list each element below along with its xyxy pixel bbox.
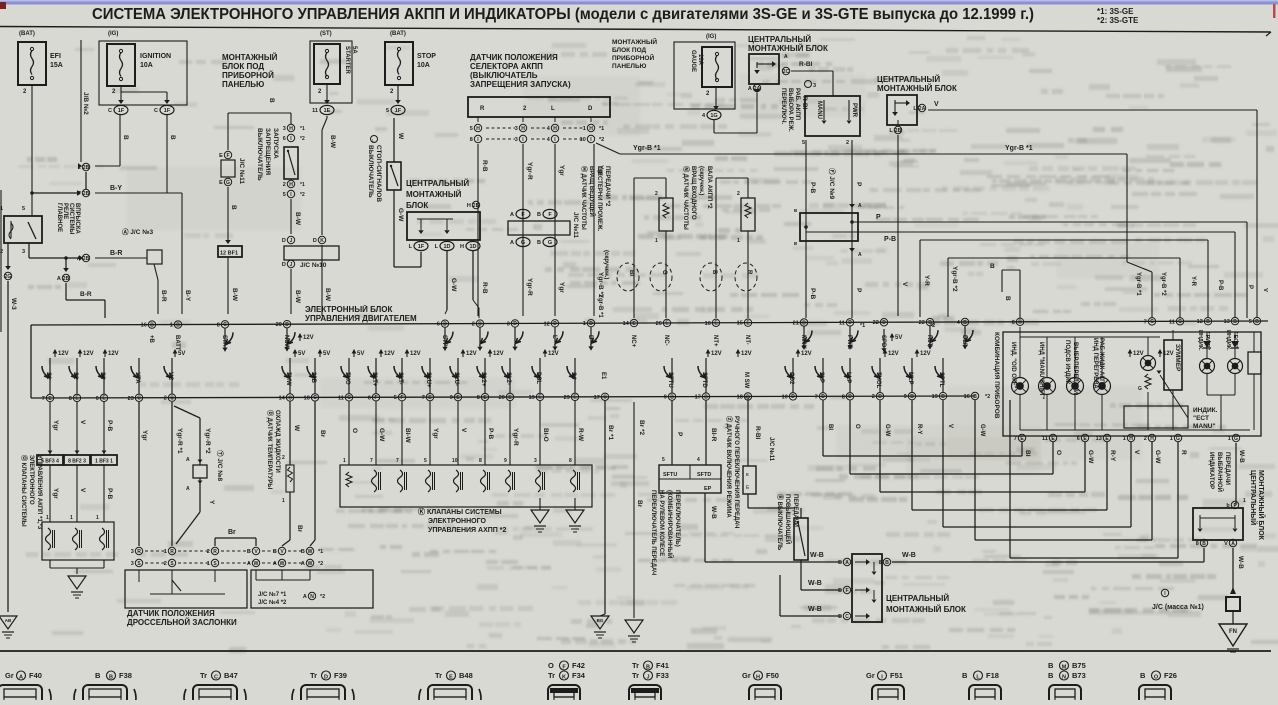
svg-text:B: B	[537, 240, 541, 246]
svg-text:C: C	[214, 675, 218, 681]
svg-text:3: 3	[22, 249, 25, 255]
svg-text:H: H	[289, 182, 293, 188]
svg-text:C: C	[1178, 319, 1182, 325]
svg-text:S1: S1	[45, 372, 51, 380]
svg-text:G-W: G-W	[397, 208, 404, 222]
svg-text:9: 9	[504, 458, 507, 464]
svg-text:B75: B75	[1072, 661, 1086, 670]
svg-text:R: R	[746, 270, 752, 275]
svg-text:МОНТАЖНЫЙ БЛОК: МОНТАЖНЫЙ БЛОК	[886, 605, 966, 614]
svg-text:N: N	[310, 594, 314, 600]
svg-text:Ⓞ КЛАПАНЫ СИСТЕМЫ: Ⓞ КЛАПАНЫ СИСТЕМЫ	[20, 455, 28, 527]
svg-text:VC: VC	[167, 372, 173, 381]
svg-text:C: C	[313, 395, 317, 401]
svg-text:12V: 12V	[711, 351, 722, 357]
svg-text:14: 14	[279, 395, 286, 401]
svg-text:11: 11	[338, 395, 344, 401]
svg-text:P-B: P-B	[884, 236, 896, 243]
svg-text:G-W: G-W	[450, 278, 457, 292]
svg-text:V: V	[1262, 288, 1268, 292]
svg-text:D: D	[513, 321, 517, 327]
svg-text:1: 1	[1123, 436, 1126, 442]
svg-text:1D: 1D	[469, 244, 476, 250]
svg-text:F: F	[374, 395, 377, 401]
svg-text:ЗУММЕР: ЗУММЕР	[1174, 344, 1181, 372]
svg-text:Gr: Gr	[5, 671, 14, 680]
svg-text:ЦЕНТРАЛЬНЫЙ: ЦЕНТРАЛЬНЫЙ	[748, 35, 811, 44]
svg-text:*2: *2	[320, 594, 325, 600]
svg-text:Br: Br	[636, 500, 643, 508]
svg-text:F33: F33	[656, 671, 669, 680]
svg-text:D: D	[882, 320, 886, 326]
svg-text:16: 16	[141, 323, 147, 329]
svg-text:ИНД "MANU SHIFT": ИНД "MANU SHIFT"	[1038, 342, 1044, 399]
svg-text:9: 9	[450, 395, 453, 401]
svg-text:ЗАПРЕЩЕНИЯ ЗАПУСКА): ЗАПРЕЩЕНИЯ ЗАПУСКА)	[470, 80, 571, 89]
svg-text:2: 2	[164, 396, 167, 402]
svg-text:11: 11	[312, 108, 318, 114]
svg-text:5: 5	[386, 108, 389, 114]
svg-text:C: C	[603, 395, 607, 401]
svg-text:BI-R: BI-R	[710, 428, 717, 442]
svg-text:13: 13	[1224, 319, 1230, 325]
svg-text:8: 8	[569, 458, 572, 464]
svg-text:V: V	[947, 424, 953, 428]
svg-text:Y-R: Y-R	[1190, 276, 1196, 287]
svg-text:R: R	[480, 106, 485, 112]
svg-text:SFTD: SFTD	[697, 472, 711, 478]
svg-text:15A: 15A	[50, 62, 63, 69]
svg-text:H: H	[756, 675, 760, 681]
svg-text:8 BF2 3: 8 BF2 3	[68, 459, 86, 465]
svg-text:B: B	[273, 549, 277, 555]
svg-text:BG: BG	[597, 618, 604, 623]
svg-text:C: C	[154, 108, 158, 114]
svg-text:1F: 1F	[118, 108, 125, 114]
svg-text:F: F	[845, 588, 848, 594]
svg-text:Ygr-R: Ygr-R	[526, 278, 533, 296]
svg-text:12V: 12V	[493, 351, 504, 357]
svg-text:P-B: P-B	[1217, 280, 1223, 291]
svg-text:D: D	[478, 321, 482, 327]
svg-text:R: R	[213, 549, 217, 555]
svg-text:A: A	[845, 560, 849, 566]
svg-text:B: B	[247, 549, 251, 555]
svg-text:18: 18	[304, 395, 310, 401]
svg-text:P: P	[855, 182, 862, 187]
svg-text:F18: F18	[986, 671, 999, 680]
svg-text:12V: 12V	[108, 351, 119, 357]
svg-text:SLT+: SLT+	[371, 372, 377, 387]
svg-text:B48: B48	[459, 671, 473, 680]
svg-text:V: V	[901, 282, 908, 287]
svg-text:"PWR": "PWR"	[1204, 332, 1210, 350]
svg-text:1: 1	[655, 238, 658, 244]
svg-text:B-W: B-W	[231, 288, 238, 302]
svg-text:THO: THO	[344, 372, 350, 385]
svg-text:V: V	[460, 428, 467, 433]
svg-text:E: E	[838, 560, 842, 566]
svg-text:ЦЕНТРАЛЬНЫЙ: ЦЕНТРАЛЬНЫЙ	[886, 594, 949, 603]
svg-text:7: 7	[396, 458, 399, 464]
svg-text:1: 1	[1170, 436, 1173, 442]
svg-text:C: C	[170, 396, 174, 402]
svg-text:B-W: B-W	[329, 135, 336, 149]
svg-text:20: 20	[276, 322, 282, 328]
svg-text:5: 5	[470, 126, 473, 132]
svg-text:Gr: Gr	[742, 671, 751, 680]
svg-text:D: D	[848, 320, 852, 326]
svg-text:F: F	[400, 395, 403, 401]
svg-text:(ВЫКЛЮЧАТЕЛЬ: (ВЫКЛЮЧАТЕЛЬ	[470, 71, 538, 80]
svg-text:20: 20	[499, 395, 505, 401]
svg-text:12: 12	[1197, 319, 1203, 325]
svg-text:ПЕРЕДАЧИ: ПЕРЕДАЧИ	[1224, 452, 1230, 485]
svg-text:A: A	[273, 561, 277, 567]
svg-text:W: W	[308, 561, 313, 567]
svg-text:Ⓕ J/C №9: Ⓕ J/C №9	[828, 168, 837, 199]
svg-text:МОНТАЖНЫЙ БЛОК: МОНТАЖНЫЙ БЛОК	[877, 84, 957, 93]
svg-text:ПЕРЕКЛЮЧАТЕЛЬ ПЕРЕДАЧ: ПЕРЕКЛЮЧАТЕЛЬ ПЕРЕДАЧ	[650, 490, 656, 575]
svg-text:2: 2	[283, 182, 286, 188]
svg-text:H: H	[476, 126, 480, 132]
svg-text:L: L	[551, 335, 557, 339]
svg-text:5: 5	[424, 458, 427, 464]
svg-text:12V: 12V	[888, 351, 899, 357]
svg-text:J/C №4 *2: J/C №4 *2	[258, 599, 287, 606]
svg-text:NT-: NT-	[744, 335, 750, 345]
svg-text:ИНДИК.: ИНДИК.	[1193, 407, 1218, 414]
svg-text:Tr: Tr	[548, 671, 555, 680]
svg-text:W-B: W-B	[1238, 450, 1245, 463]
svg-text:5V: 5V	[357, 351, 364, 357]
svg-text:Ⓜ ДАТЧИК ЧАСТОТЫ: Ⓜ ДАТЧИК ЧАСТОТЫ	[580, 166, 588, 230]
svg-text:12V: 12V	[741, 351, 752, 357]
svg-text:ПРИБОРНОЙ: ПРИБОРНОЙ	[222, 71, 274, 80]
svg-text:B: B	[941, 394, 945, 400]
svg-text:Br *1: Br *1	[607, 425, 614, 441]
svg-text:A: A	[858, 252, 862, 258]
svg-text:*1: *1	[318, 549, 323, 555]
svg-text:SLU-: SLU-	[453, 372, 459, 386]
svg-text:Br: Br	[228, 529, 236, 536]
svg-text:A: A	[57, 276, 61, 282]
svg-text:3: 3	[283, 126, 286, 132]
svg-text:Ygr: Ygr	[52, 488, 59, 499]
svg-text:1: 1	[737, 238, 740, 244]
svg-text:12 BF1: 12 BF1	[220, 251, 238, 257]
svg-text:2: 2	[78, 165, 81, 171]
svg-text:Tr: Tr	[310, 671, 317, 680]
svg-text:P: P	[855, 288, 862, 293]
svg-text:10: 10	[452, 458, 458, 464]
svg-text:M SW: M SW	[743, 372, 749, 389]
svg-text:D: D	[443, 321, 447, 327]
svg-text:Ⓣ J/C №8: Ⓣ J/C №8	[216, 450, 225, 481]
svg-text:D: D	[848, 394, 852, 400]
svg-text:A: A	[186, 457, 190, 463]
svg-text:КОМБИНАЦИЯ ПРИБОРОВ: КОМБИНАЦИЯ ПРИБОРОВ	[993, 332, 1000, 419]
svg-text:J/C (масса №1): J/C (масса №1)	[1152, 603, 1204, 611]
svg-text:Ygr-R *1: Ygr-R *1	[176, 428, 183, 454]
svg-text:1F: 1F	[164, 108, 171, 114]
svg-text:B: B	[1048, 671, 1054, 680]
svg-text:P-B: P-B	[809, 288, 816, 300]
svg-text:D: D	[313, 238, 317, 244]
svg-text:3: 3	[515, 137, 518, 143]
svg-text:GAUGE: GAUGE	[690, 50, 696, 72]
svg-text:F38: F38	[119, 671, 132, 680]
svg-text:8: 8	[842, 394, 845, 400]
svg-text:L: L	[551, 106, 555, 112]
svg-text:7: 7	[815, 394, 818, 400]
svg-text:12V: 12V	[920, 351, 931, 357]
svg-text:B-R: B-R	[160, 290, 167, 302]
svg-text:A: A	[186, 486, 190, 492]
svg-text:Ⓝ ДАТЧИК ЧАСТОТЫ: Ⓝ ДАТЧИК ЧАСТОТЫ	[682, 166, 690, 230]
svg-text:РУЧНОГО ПЕРЕКЛЮЧЕНИЯ ПЕРЕДАЧ: РУЧНОГО ПЕРЕКЛЮЧЕНИЯ ПЕРЕДАЧ	[733, 416, 739, 528]
svg-text:THOL: THOL	[875, 372, 881, 389]
svg-text:P-B: P-B	[809, 182, 816, 194]
svg-text:D: D	[282, 262, 286, 268]
svg-text:Ⓑ ВЫКЛЮЧАТЕЛЬ: Ⓑ ВЫКЛЮЧАТЕЛЬ	[776, 494, 784, 551]
svg-text:B: B	[95, 671, 101, 680]
svg-text:8: 8	[69, 396, 72, 402]
svg-text:"ЕСТ: "ЕСТ	[1193, 415, 1209, 422]
svg-text:6: 6	[96, 396, 99, 402]
svg-text:H: H	[1150, 436, 1154, 442]
svg-text:O: O	[351, 428, 358, 433]
svg-text:Ygr-B *1: Ygr-B *1	[1005, 145, 1033, 152]
svg-text:ШЕСТЕРНИ ПРОМЕЖ.: ШЕСТЕРНИ ПРОМЕЖ.	[596, 166, 602, 232]
svg-text:B: B	[169, 135, 176, 140]
svg-text:Tr: Tr	[632, 661, 639, 670]
svg-text:PWR: PWR	[851, 103, 857, 118]
svg-text:ПЕРЕКЛЮЧАТЕЛЬ): ПЕРЕКЛЮЧАТЕЛЬ)	[674, 490, 680, 547]
svg-text:ВРАЩ ВЕДУЩЕЙ: ВРАЩ ВЕДУЩЕЙ	[588, 166, 596, 217]
svg-text:ПЕРЕКЛЮЧ.: ПЕРЕКЛЮЧ.	[780, 88, 786, 125]
svg-text:D: D	[587, 335, 593, 340]
svg-text:D: D	[878, 394, 882, 400]
svg-text:ВЫКЛЮЧАТЕЛЬ: ВЫКЛЮЧАТЕЛЬ	[256, 128, 263, 181]
svg-text:17: 17	[594, 395, 600, 401]
svg-text:O: O	[1055, 450, 1062, 455]
svg-text:*2: *2	[318, 561, 323, 567]
svg-text:1G: 1G	[710, 113, 717, 119]
svg-text:P-B: P-B	[106, 420, 113, 432]
svg-text:NC+: NC+	[630, 335, 636, 348]
svg-text:3: 3	[507, 321, 510, 327]
svg-text:МОНТАЖНЫЙ: МОНТАЖНЫЙ	[406, 190, 462, 199]
svg-text:17: 17	[695, 395, 701, 401]
svg-text:B-Y: B-Y	[110, 185, 122, 192]
svg-text:J/C №11: J/C №11	[238, 158, 245, 184]
svg-text:Gr: Gr	[866, 671, 875, 680]
svg-text:E: E	[838, 588, 842, 594]
svg-text:Ygr-B *1: Ygr-B *1	[597, 294, 603, 318]
svg-text:O: O	[1154, 675, 1159, 681]
svg-text:Ⓐ J/C №3: Ⓐ J/C №3	[122, 227, 153, 236]
svg-text:ИНД ПЕРЕГРЕВА: ИНД ПЕРЕГРЕВА	[1092, 338, 1098, 389]
svg-text:МОНТАЖНЫЙ: МОНТАЖНЫЙ	[222, 53, 278, 62]
svg-text:B: B	[109, 675, 113, 681]
svg-text:C: C	[223, 322, 227, 328]
svg-text:H: H	[1129, 436, 1133, 442]
svg-text:ИНДИК.: ИНДИК.	[1225, 330, 1231, 351]
svg-text:5: 5	[22, 206, 25, 212]
svg-text:(КОМБИНИРОВАННЫЙ: (КОМБИНИРОВАННЫЙ	[666, 490, 674, 558]
svg-text:C: C	[108, 108, 112, 114]
svg-text:B: B	[301, 549, 305, 555]
svg-text:12V: 12V	[801, 351, 812, 357]
svg-text:IGNITION: IGNITION	[140, 53, 171, 60]
svg-text:B: B	[1233, 319, 1237, 325]
svg-text:ПОВЫШАЮЩЕЙ: ПОВЫШАЮЩЕЙ	[784, 494, 792, 544]
svg-text:НА РУЛЕВОМ КОЛЕСЕ: НА РУЛЕВОМ КОЛЕСЕ	[658, 490, 664, 556]
svg-text:C: C	[288, 395, 292, 401]
svg-text:B: B	[711, 270, 717, 275]
svg-text:2: 2	[737, 191, 740, 197]
svg-text:SL2-: SL2-	[505, 372, 511, 385]
svg-text:БЛОК ПОД: БЛОК ПОД	[612, 47, 647, 54]
svg-text:ЗАПУСКА: ЗАПУСКА	[272, 128, 279, 159]
svg-text:AB: AB	[5, 618, 12, 623]
svg-text:Tr: Tr	[200, 671, 207, 680]
svg-text:14: 14	[623, 321, 630, 327]
svg-text:5: 5	[1249, 319, 1252, 325]
svg-text:5: 5	[394, 395, 397, 401]
svg-text:Ygr-B *2: Ygr-B *2	[951, 266, 958, 292]
svg-text:SL2+: SL2+	[480, 372, 486, 387]
svg-text:B: B	[1048, 661, 1054, 670]
svg-text:F42: F42	[572, 661, 585, 670]
svg-text:BI: BI	[827, 424, 833, 430]
svg-text:19: 19	[932, 394, 938, 400]
svg-text:B: B	[973, 394, 977, 400]
svg-text:2: 2	[846, 140, 849, 146]
svg-text:15: 15	[737, 321, 743, 327]
svg-text:*2: *2	[300, 136, 305, 142]
svg-text:11: 11	[1169, 319, 1175, 325]
svg-text:S2: S2	[72, 372, 78, 380]
svg-text:Tr: Tr	[632, 671, 639, 680]
svg-text:3: 3	[515, 126, 518, 132]
svg-text:G: G	[1138, 386, 1142, 392]
svg-text:ПОДСВ ИНДИК.: ПОДСВ ИНДИК.	[1064, 340, 1070, 386]
svg-text:B-W: B-W	[324, 288, 331, 302]
svg-text:F39: F39	[334, 671, 347, 680]
svg-text:SLT-: SLT-	[397, 372, 403, 385]
svg-text:(ST): (ST)	[320, 31, 332, 37]
svg-text:2: 2	[655, 191, 658, 197]
svg-text:Ygr-R *2: Ygr-R *2	[204, 428, 211, 454]
svg-text:РАБ.ЖИДК АКПП: РАБ.ЖИДК АКПП	[1098, 338, 1104, 388]
svg-text:BATT: BATT	[174, 335, 180, 351]
svg-text:ЦЕНТРАЛЬНЫЙ: ЦЕНТРАЛЬНЫЙ	[877, 75, 940, 84]
svg-text:R-B: R-B	[481, 160, 488, 172]
svg-text:K: K	[320, 238, 324, 244]
svg-text:A: A	[303, 594, 307, 600]
svg-text:2G: 2G	[5, 274, 12, 280]
svg-text:ВАЛА АКПП *2: ВАЛА АКПП *2	[706, 166, 712, 209]
svg-text:Br: Br	[296, 525, 303, 533]
svg-text:S4: S4	[570, 372, 576, 380]
svg-text:R: R	[137, 549, 141, 555]
svg-text:1: 1	[96, 515, 99, 521]
svg-text:ДРОССЕЛЬНОЙ ЗАСЛОНКИ: ДРОССЕЛЬНОЙ ЗАСЛОНКИ	[127, 618, 237, 627]
svg-text:12: 12	[544, 321, 550, 327]
svg-text:J/C №11: J/C №11	[768, 437, 775, 462]
svg-text:2B: 2B	[63, 276, 70, 282]
svg-text:18: 18	[737, 394, 743, 400]
svg-text:N: N	[1062, 675, 1066, 681]
svg-text:12V: 12V	[466, 351, 477, 357]
svg-text:B-Y: B-Y	[184, 290, 191, 302]
svg-text:12V: 12V	[83, 351, 94, 357]
svg-text:7: 7	[1014, 436, 1017, 442]
svg-text:29: 29	[564, 395, 570, 401]
svg-text:2: 2	[164, 561, 167, 567]
svg-text:A: A	[748, 86, 752, 92]
svg-text:2: 2	[207, 549, 210, 555]
svg-text:YTA: YTA	[134, 372, 140, 384]
svg-text:22B: 22B	[310, 372, 316, 384]
svg-text:DSL: DSL	[535, 372, 541, 384]
svg-text:OD2: OD2	[788, 372, 794, 385]
svg-text:*1: *1	[599, 126, 604, 132]
svg-text:6: 6	[283, 136, 286, 142]
svg-text:G: G	[521, 240, 525, 246]
svg-text:V: V	[79, 488, 86, 493]
svg-text:12V: 12V	[303, 335, 314, 341]
svg-text:в: в	[794, 208, 797, 214]
svg-text:2B: 2B	[83, 191, 90, 197]
svg-text:A: A	[247, 561, 251, 567]
svg-text:B: B	[268, 98, 275, 103]
svg-text:P-B: P-B	[487, 428, 494, 440]
svg-text:SFTU: SFTU	[663, 472, 677, 478]
svg-text:Ygr: Ygr	[558, 165, 565, 176]
svg-text:8: 8	[217, 322, 220, 328]
svg-text:ПЕРЕДАЧИ *2: ПЕРЕДАЧИ *2	[604, 166, 610, 207]
svg-text:BI: BI	[1024, 450, 1031, 457]
svg-text:6: 6	[437, 322, 440, 328]
svg-text:1: 1	[170, 323, 173, 329]
svg-text:СТОП-СИГНАЛОВ: СТОП-СИГНАЛОВ	[375, 145, 382, 202]
svg-text:ДАТЧИК ПОЛОЖЕНИЯ: ДАТЧИК ПОЛОЖЕНИЯ	[127, 609, 215, 618]
svg-text:W-B: W-B	[808, 606, 822, 613]
svg-text:Ⓚ КЛАПАНЫ СИСТЕМЫ: Ⓚ КЛАПАНЫ СИСТЕМЫ	[418, 507, 502, 516]
svg-text:1: 1	[1228, 436, 1231, 442]
svg-text:H: H	[521, 126, 525, 132]
svg-text:J: J	[646, 675, 649, 681]
svg-text:1: 1	[583, 321, 586, 327]
svg-text:ОХЛАЖД ЖИДКОСТИ: ОХЛАЖД ЖИДКОСТИ	[274, 410, 280, 473]
svg-text:ЭЛЕКТРОННЫЙ БЛОК: ЭЛЕКТРОННЫЙ БЛОК	[305, 305, 393, 314]
svg-text:1: 1	[164, 549, 167, 555]
svg-text:ПАНЕЛЬЮ: ПАНЕЛЬЮ	[612, 63, 647, 70]
svg-text:1: 1	[583, 126, 586, 132]
svg-text:B: B	[1255, 319, 1259, 325]
svg-text:10A: 10A	[697, 54, 703, 66]
svg-text:2B: 2B	[473, 203, 480, 209]
svg-text:MANU: MANU	[816, 101, 822, 119]
svg-text:SFTD: SFTD	[701, 372, 707, 388]
svg-text:FN: FN	[1229, 629, 1237, 635]
svg-text:J/C №10: J/C №10	[300, 262, 327, 269]
svg-text:R: R	[1180, 450, 1187, 455]
svg-text:H: H	[589, 126, 593, 132]
